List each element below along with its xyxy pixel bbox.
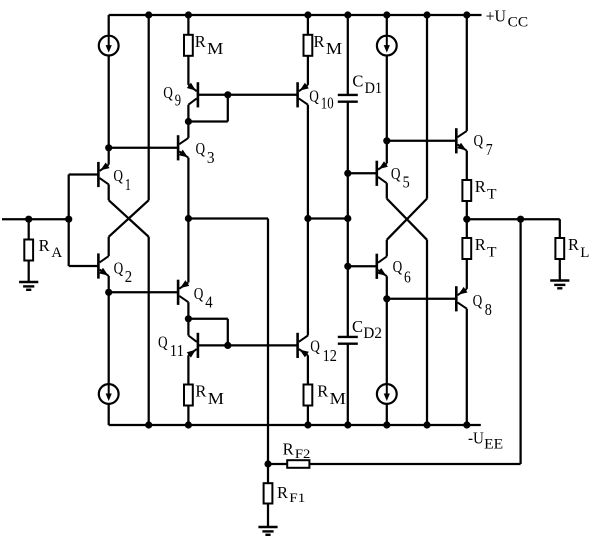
svg-text:L: L — [580, 245, 589, 261]
ground below RL — [550, 279, 569, 281]
wire to Q2 base — [69, 265, 99, 267]
wire bottom supply rail -UEE — [109, 424, 481, 426]
wire RT2 to Q8 emitter — [466, 259, 468, 289]
wire to Q3 collector — [187, 122, 189, 138]
svg-text:R: R — [475, 177, 486, 196]
transistor Q12 — [296, 333, 299, 358]
resistor RT2 — [462, 238, 471, 259]
junction Q4 collector — [185, 315, 192, 322]
ground below RA — [19, 281, 38, 283]
svg-text:R: R — [195, 381, 206, 400]
wire output node to RL — [467, 218, 560, 220]
svg-text:Q: Q — [309, 87, 319, 106]
junction Q6 emitter node — [383, 295, 390, 302]
svg-text:8: 8 — [485, 300, 492, 319]
wire Q8 collector to -UEE — [466, 309, 468, 425]
svg-text:Q: Q — [194, 284, 204, 303]
wire rail to RM1 — [187, 15, 189, 35]
wire crossing to +UCC rail right — [426, 15, 428, 199]
wire Q4 collector down — [187, 302, 189, 319]
wire mid link to cap column — [308, 217, 348, 219]
wire Q6 collector up — [386, 240, 388, 257]
svg-text:R: R — [475, 235, 486, 254]
svg-text:M: M — [326, 39, 343, 58]
wire Q7 collector to +UCC — [466, 15, 468, 131]
svg-text:+U: +U — [486, 7, 506, 26]
svg-text:M: M — [207, 39, 224, 58]
wire RM2 to Q10 emitter — [307, 56, 309, 85]
wire crossing to -UEE rail right — [426, 240, 428, 425]
wire Q1 collector down — [108, 184, 110, 200]
wire RL lead down — [559, 219, 561, 238]
transistor Q11 — [197, 333, 200, 358]
wire node to Q5 emitter — [386, 141, 388, 164]
wire Q2 collector crossing diagonal — [109, 200, 149, 237]
wire Q2 emitter to node B — [108, 276, 110, 292]
svg-text:D1: D1 — [365, 80, 383, 97]
wire CD2 to -UEE rail — [347, 344, 349, 425]
wire rail to RM2 — [307, 15, 309, 35]
wire RA lead — [28, 219, 30, 239]
svg-text:12: 12 — [323, 346, 337, 365]
wire Q9 base bus to Q10 base — [198, 94, 298, 96]
svg-text:Q: Q — [163, 83, 173, 102]
transistor Q5 — [375, 161, 378, 186]
wire node A to Q3 base — [109, 147, 178, 149]
junction Q7 collector rail — [463, 11, 470, 18]
svg-text:Q: Q — [114, 258, 124, 277]
wire RA to ground — [28, 261, 30, 283]
svg-text:R: R — [195, 32, 206, 51]
wire Q5 collector down — [386, 183, 388, 198]
svg-text:Q: Q — [473, 291, 483, 310]
node B junction — [105, 289, 112, 296]
junction Q5 emitter node — [383, 137, 390, 144]
svg-text:T: T — [487, 245, 497, 261]
output node junction — [463, 216, 470, 223]
wire Q6 emitter to node — [386, 276, 388, 299]
transistor Q6 — [375, 254, 378, 279]
junction rail cap column — [344, 11, 351, 18]
svg-text:F2: F2 — [295, 447, 311, 461]
svg-text:1: 1 — [125, 175, 131, 194]
junction rail I3 — [383, 11, 390, 18]
svg-text:10: 10 — [321, 94, 334, 113]
transistor Q1 — [97, 162, 100, 187]
junction on -UEE rail — [145, 421, 152, 428]
svg-text:Q: Q — [158, 332, 168, 351]
node RA junction — [25, 216, 32, 223]
svg-text:T: T — [487, 186, 497, 202]
transistor Q9 — [197, 82, 200, 107]
junction RM4 rail — [304, 421, 311, 428]
wire feedback column vertical — [267, 219, 269, 465]
svg-text:C: C — [352, 317, 363, 336]
wire RM3 to -UEE rail — [187, 406, 189, 426]
wire feedback vertical from output — [519, 219, 521, 464]
svg-text:D2: D2 — [363, 325, 382, 342]
current source I1 — [99, 36, 119, 56]
transistor Q3 — [177, 135, 180, 160]
svg-text:9: 9 — [175, 90, 181, 109]
resistor RM1 — [184, 35, 193, 56]
svg-text:C: C — [352, 71, 363, 90]
resistor RM4 — [304, 385, 313, 406]
wire Q11 base bus to Q12 base — [198, 344, 298, 346]
wire Q6 collector crossing diagonal — [387, 199, 427, 240]
svg-text:Q: Q — [310, 337, 320, 356]
wire output node to RT2 — [466, 219, 468, 238]
wire Q4 collector tie horizontal — [188, 318, 227, 320]
junction Q11 base tie — [224, 342, 231, 349]
wire Q6 node to Q8 base — [387, 298, 457, 300]
wire feedback node to RF1 — [267, 464, 269, 483]
svg-text:6: 6 — [404, 268, 411, 287]
svg-text:M: M — [330, 389, 347, 408]
junction cap column mid — [344, 215, 351, 222]
wire crossing to +UCC rail — [148, 15, 150, 200]
wire I4 to -UEE rail — [386, 404, 388, 425]
svg-text:Q: Q — [113, 166, 123, 185]
transistor Q4 — [177, 280, 180, 305]
node A junction — [105, 144, 112, 151]
wire collector-base tie horizontal — [188, 120, 227, 122]
feedback node junction — [264, 460, 271, 467]
wire Q4 collector tie vertical — [227, 319, 229, 346]
wire feedback horizontal — [309, 463, 520, 465]
junction RM3 rail — [185, 421, 192, 428]
wire node to current source I4 — [386, 299, 388, 397]
wire RM1 to Q9 emitter — [187, 56, 189, 85]
svg-text:EE: EE — [484, 437, 503, 453]
svg-text:R: R — [277, 483, 288, 502]
wire I2 to -UEE rail — [108, 404, 110, 425]
svg-text:R: R — [314, 32, 325, 51]
wire mid node to feedback column — [188, 217, 268, 219]
svg-text:-U: -U — [468, 428, 484, 447]
wire CD1 to CD2 — [347, 102, 349, 337]
svg-text:2: 2 — [125, 267, 132, 286]
wire top supply rail +UCC — [109, 14, 482, 16]
wire rail to current source I3 — [386, 15, 388, 48]
junction Q5 base node — [344, 170, 351, 177]
resistor RA — [24, 240, 33, 261]
junction Q10 collector — [304, 215, 311, 222]
wire rail to CD1 — [347, 15, 349, 95]
wire RF2 to feedback node — [268, 463, 287, 465]
wire Q10 collector down — [307, 105, 309, 219]
junction crossing rail bottom — [423, 421, 430, 428]
wire Q2 collector up — [108, 237, 110, 256]
junction Q9 base tie — [224, 91, 231, 98]
wire node B to current source I2 — [108, 292, 110, 396]
svg-text:Q: Q — [391, 164, 401, 183]
wire Q12 collector up — [307, 219, 309, 336]
wire Q1 collector crossing diagonal — [109, 200, 149, 237]
junction rail RM1 — [185, 11, 192, 18]
wire input node vertical — [68, 175, 70, 267]
capacitor CD2 — [338, 336, 358, 338]
svg-text:Q: Q — [474, 131, 484, 150]
svg-text:7: 7 — [486, 140, 493, 159]
svg-text:A: A — [51, 245, 62, 261]
junction Q9 collector — [185, 118, 192, 125]
wire to Q11 collector — [187, 319, 189, 336]
svg-text:3: 3 — [207, 148, 215, 167]
junction I4 rail — [383, 421, 390, 428]
transistor Q2 — [97, 253, 100, 278]
wire Q11 emitter to RM3 — [187, 355, 189, 384]
wire mid node to Q4 emitter — [187, 219, 189, 283]
wire node A to Q1 emitter — [108, 148, 110, 165]
resistor RL — [555, 238, 564, 259]
wire Q12 emitter to RM4 — [307, 355, 309, 384]
feedback tap junction — [517, 216, 524, 223]
junction crossing rail top — [423, 11, 430, 18]
svg-text:CC: CC — [508, 15, 528, 31]
current source I4 — [377, 384, 397, 404]
svg-text:R: R — [568, 235, 579, 254]
svg-text:Q: Q — [393, 257, 403, 276]
svg-text:5: 5 — [403, 173, 410, 192]
resistor RM3 — [184, 385, 193, 406]
wire Q9 collector down — [187, 105, 189, 122]
junction Q6 base node — [344, 263, 351, 270]
svg-text:R: R — [317, 381, 328, 400]
svg-text:F1: F1 — [289, 491, 305, 505]
wire Q6 base — [348, 265, 377, 267]
input node junction — [65, 216, 72, 223]
wire Q3 emitter to mid node — [187, 158, 189, 219]
wire crossing to -UEE rail — [148, 237, 150, 425]
wire RM4 to -UEE rail — [307, 406, 309, 426]
wire Q7 emitter to RT1 — [466, 151, 468, 180]
wire I1 to node A — [108, 56, 110, 148]
junction rail RM2 — [304, 11, 311, 18]
transistor Q7 — [455, 128, 458, 153]
wire node B to Q4 base — [109, 291, 178, 293]
resistor RT1 — [462, 180, 471, 201]
wire RL to ground — [559, 259, 561, 281]
svg-text:11: 11 — [170, 341, 184, 360]
svg-text:R: R — [283, 439, 294, 458]
current source I3 — [377, 36, 397, 56]
capacitor CD1 — [338, 94, 358, 96]
wire to Q1 base — [69, 173, 99, 175]
resistor RM2 — [304, 35, 313, 56]
wire RF1 to ground — [267, 504, 269, 528]
mid node junction — [185, 215, 192, 222]
wire I3 to Q5 emitter node — [386, 56, 388, 141]
transistor Q10 — [296, 82, 299, 107]
svg-text:R: R — [39, 236, 50, 255]
junction on +UCC rail — [145, 11, 152, 18]
wire input line — [2, 218, 69, 220]
svg-text:4: 4 — [205, 293, 212, 312]
svg-text:M: M — [208, 389, 225, 408]
resistor RF1 — [264, 483, 273, 503]
wire Q5 base — [348, 172, 377, 174]
transistor Q8 — [455, 286, 458, 311]
wire +UCC to current source I1 — [108, 15, 110, 48]
svg-text:Q: Q — [196, 139, 206, 158]
wire RT1 to output node — [466, 201, 468, 219]
resistor RF2 — [287, 460, 309, 468]
wire Q5 collector crossing diagonal — [387, 199, 427, 240]
current source I2 — [99, 384, 119, 404]
junction cap column rail — [344, 421, 351, 428]
wire collector-base tie vertical — [227, 95, 229, 122]
junction Q8 collector rail — [463, 421, 470, 428]
ground below RF1 — [258, 526, 277, 528]
wire Q5 node to Q7 base — [387, 140, 457, 142]
